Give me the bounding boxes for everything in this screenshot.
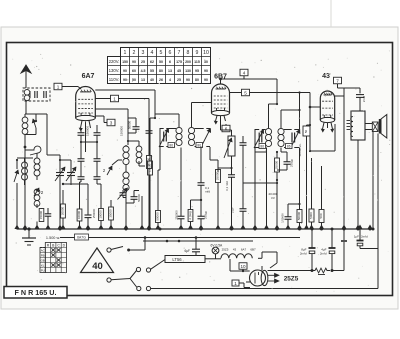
switch contact b — [107, 267, 141, 290]
svg-text:KL: KL — [41, 264, 45, 268]
tuning capacitor section 2 — [66, 165, 76, 185]
wire right verticals — [343, 96, 345, 229]
svg-text:20000: 20000 — [60, 206, 64, 215]
svg-text:110V.: 110V. — [109, 77, 120, 82]
coil data table — [40, 243, 67, 273]
input coil L1 — [17, 158, 33, 185]
2uF label — [231, 207, 235, 213]
heater chain — [221, 248, 277, 259]
capacitor 0.1 on detector line — [198, 183, 211, 216]
wire IFT1 sec lead — [200, 147, 202, 183]
capacitor stack mid a — [78, 141, 85, 170]
wire 142 — [141, 196, 143, 229]
capacitor on AVC line — [146, 131, 153, 134]
third line — [143, 236, 253, 242]
svg-text:1µF: 1µF — [354, 235, 359, 239]
tube 6A7 — [76, 87, 96, 121]
filter resistor — [311, 268, 334, 274]
node box T2 — [232, 280, 250, 288]
svg-text:10000: 10000 — [77, 210, 81, 219]
switch contact a — [107, 238, 145, 253]
svg-text:2 µF: 2 µF — [231, 207, 235, 213]
svg-text:175: 175 — [176, 60, 182, 64]
svg-text:10: 10 — [203, 50, 209, 56]
svg-text:1: 1 — [124, 50, 127, 56]
svg-text:6B7: 6B7 — [250, 248, 256, 252]
wire 43 anode to transformer — [335, 88, 360, 96]
antenna coil with switch — [22, 114, 37, 138]
antenna filter box — [23, 88, 50, 101]
svg-text:80: 80 — [195, 78, 199, 82]
electrolytic 4uF — [320, 229, 336, 271]
svg-text:250µµ: 250µµ — [204, 211, 208, 219]
svg-text:130: 130 — [185, 69, 191, 73]
speaker — [365, 115, 387, 139]
svg-text:250µµ: 250µµ — [290, 159, 294, 167]
svg-text:4: 4 — [151, 50, 154, 56]
tube 6A7 label — [82, 73, 95, 80]
resistor 5000 right — [309, 158, 314, 229]
capacitor 250000 near bus left — [175, 210, 185, 229]
ground symbol — [22, 227, 36, 245]
capacitor stack mid c — [78, 170, 85, 209]
svg-text:F N R 165 U.: F N R 165 U. — [15, 288, 57, 297]
svg-text:mfd: mfd — [205, 190, 210, 194]
svg-text:40: 40 — [150, 78, 154, 82]
padding capacitor — [45, 208, 52, 229]
chassis bus — [17, 228, 374, 230]
node box 7 — [334, 77, 342, 88]
wire IFT2 bottoms — [255, 148, 281, 230]
capacitor 6uF — [184, 238, 200, 256]
capacitor pair under 6A7 b — [94, 125, 101, 142]
wire IFT2 secondary top — [281, 109, 301, 129]
wire 25Z5 top — [229, 259, 231, 271]
capacitor pair under 6A7 a — [78, 128, 85, 142]
secondary line — [60, 237, 300, 239]
svg-text:1: 1 — [113, 96, 116, 101]
label 150000 b — [120, 126, 124, 136]
resistor 50000 43grid — [298, 124, 311, 229]
svg-text:50000: 50000 — [297, 211, 301, 220]
IF transformer 1 — [159, 120, 211, 216]
scan noise — [12, 48, 390, 292]
svg-text:90: 90 — [186, 78, 190, 82]
svg-text:43: 43 — [233, 248, 237, 252]
svg-text:5: 5 — [160, 50, 163, 56]
svg-text:150000: 150000 — [120, 126, 124, 136]
svg-text:60: 60 — [132, 69, 136, 73]
svg-text:PB: PB — [41, 254, 45, 258]
wire 43 grid bottom — [309, 125, 335, 152]
svg-text:9: 9 — [196, 50, 199, 56]
ground label — [46, 236, 60, 240]
wire 43 grid — [298, 91, 320, 108]
svg-text:2mfd: 2mfd — [362, 95, 366, 102]
resistor 2 meg — [188, 199, 202, 229]
svg-text:25000: 25000 — [274, 160, 278, 169]
osc coil upper — [123, 145, 129, 165]
dial lamp — [211, 243, 224, 258]
tube 25Z5 label — [284, 276, 299, 283]
resistor box 158 — [155, 211, 160, 230]
wire IFT1 secondary to 6B7 grid — [192, 103, 212, 121]
svg-text:13: 13 — [141, 78, 145, 82]
wire grid line to IFT1 resistor — [119, 99, 150, 156]
svg-text:50000: 50000 — [146, 157, 150, 166]
capacitor right a — [281, 203, 301, 229]
bus junctions — [15, 225, 375, 230]
wire IFT1 left down — [158, 147, 160, 210]
svg-text:150: 150 — [122, 60, 128, 64]
svg-text:250000: 250000 — [175, 210, 179, 220]
43 cathode wire — [328, 123, 336, 151]
svg-text:3: 3 — [110, 120, 113, 125]
svg-text:50000: 50000 — [137, 194, 141, 202]
capacitor 0.1 6B7 — [225, 168, 235, 229]
resistor 150000 osc anode — [139, 156, 153, 229]
osc anode coil — [127, 140, 142, 164]
osc grid capacitor — [128, 120, 140, 133]
svg-text:50000: 50000 — [155, 212, 159, 221]
capacitor 250uu near bus — [198, 211, 208, 229]
svg-text:AC: AC — [41, 249, 45, 253]
svg-text:86: 86 — [287, 145, 291, 149]
svg-text:40: 40 — [92, 261, 103, 272]
svg-text:1: 1 — [57, 84, 60, 89]
svg-text:500: 500 — [319, 213, 323, 218]
svg-text:220V.: 220V. — [109, 59, 120, 64]
svg-text:86: 86 — [169, 144, 173, 148]
svg-text:2 meg: 2 meg — [188, 211, 192, 220]
svg-text:6: 6 — [169, 60, 171, 64]
tube 6B7 — [212, 78, 230, 116]
svg-text:150000: 150000 — [86, 126, 90, 136]
svg-text:6A7G: 6A7G — [77, 236, 86, 240]
resistor 500 right — [319, 166, 324, 229]
wire det to volume — [243, 152, 278, 184]
svg-text:2mfd: 2mfd — [320, 252, 327, 256]
capacitor 2mfd 43 — [356, 95, 366, 111]
capacitor stack mid d — [94, 177, 102, 209]
svg-text:6A7: 6A7 — [241, 248, 247, 252]
svg-text:50: 50 — [159, 60, 163, 64]
svg-text:25Z5: 25Z5 — [284, 276, 299, 283]
band switch S1 — [14, 159, 19, 229]
resistor 50000 IFT1 — [146, 156, 151, 230]
svg-text:62: 62 — [150, 60, 154, 64]
node box T1 — [239, 263, 247, 272]
tube 6B7 label — [214, 74, 227, 81]
svg-text:7: 7 — [336, 78, 339, 83]
resistor 50000 osc — [128, 118, 132, 145]
svg-text:90: 90 — [132, 60, 136, 64]
resistor 150000 input — [39, 208, 44, 222]
svg-text:90: 90 — [204, 69, 208, 73]
wire gang top — [36, 114, 71, 165]
node box 3 — [95, 116, 115, 126]
resistor 10000 — [98, 209, 103, 230]
tube 43 label — [322, 73, 330, 80]
svg-text:200: 200 — [185, 60, 191, 64]
wire osc top — [95, 109, 136, 120]
svg-text:15000: 15000 — [39, 210, 43, 219]
capacitor below bus 344 — [341, 229, 347, 255]
wire IFT2 primary top — [269, 103, 279, 128]
svg-text:3: 3 — [142, 50, 145, 56]
svg-text:86: 86 — [260, 145, 264, 149]
svg-text:90: 90 — [123, 69, 127, 73]
wire transformer down — [358, 132, 378, 249]
svg-text:95: 95 — [195, 69, 199, 73]
rectifier 25Z5 — [230, 270, 279, 286]
voltage tap table — [108, 48, 211, 84]
svg-text:45: 45 — [177, 69, 181, 73]
svg-text:130V.: 130V. — [109, 68, 120, 73]
grid cap box 1 — [54, 83, 81, 90]
ballast resistor LT56 — [165, 256, 221, 263]
svg-text:4: 4 — [243, 70, 246, 75]
svg-text:6: 6 — [169, 50, 172, 56]
wire box4 to IFT2 — [244, 79, 277, 104]
6A7 heater leads — [79, 121, 90, 131]
svg-text:35000: 35000 — [108, 209, 112, 218]
wire power right vertical — [246, 249, 378, 289]
border frame — [7, 43, 393, 296]
alignment triangle 40 — [81, 248, 114, 273]
svg-text:250000: 250000 — [92, 208, 96, 218]
tuning capacitor section 1 — [55, 160, 65, 229]
svg-text:80: 80 — [159, 69, 163, 73]
svg-text:4.5: 4.5 — [141, 69, 146, 73]
node box 4 — [221, 69, 249, 79]
svg-text:5000: 5000 — [309, 212, 313, 219]
osc coil lower — [123, 165, 129, 230]
osc trimmer — [118, 188, 128, 200]
label 250000 cluster — [92, 208, 96, 218]
svg-text:10000: 10000 — [98, 210, 102, 219]
scan artifact line top — [330, 0, 332, 27]
resistor 250000 6B7 — [215, 163, 232, 229]
wire avc down — [276, 180, 278, 229]
svg-text:25000: 25000 — [215, 171, 219, 180]
resistor 10000 under caps — [77, 209, 82, 229]
output transformer — [347, 111, 366, 140]
svg-text:5: 5 — [244, 90, 247, 95]
IF transformer 2 — [254, 128, 300, 148]
capacitor 6B7 grid — [240, 136, 247, 152]
svg-text:1/10000: 1/10000 — [281, 213, 285, 223]
volume potentiometer — [221, 124, 236, 163]
6B7 cathode lead — [214, 116, 225, 124]
capacitor 6B7 bus a — [240, 152, 247, 229]
svg-text:1.500 w.: 1.500 w. — [46, 236, 60, 240]
svg-text:6: 6 — [225, 126, 228, 131]
title box FNR 165 U — [4, 287, 67, 299]
svg-text:0,1 mfd: 0,1 mfd — [225, 181, 229, 191]
wire antenna to coil — [25, 101, 27, 114]
svg-text:µµ: µµ — [271, 196, 275, 200]
6A7 cathode lead — [85, 121, 87, 142]
svg-text:10.000 uh.: 10.000 uh. — [298, 143, 302, 156]
svg-text:50: 50 — [304, 130, 308, 134]
resistor 350000 — [108, 200, 113, 229]
svg-text:25: 25 — [141, 60, 145, 64]
wire to band coils — [24, 138, 27, 229]
svg-text:8: 8 — [187, 50, 190, 56]
resistor 150000 under 6A7 — [86, 126, 90, 152]
diode load capacitor 250uu — [277, 152, 294, 170]
resistor 50000 right — [297, 148, 302, 229]
43 heater leads — [321, 123, 334, 132]
osc parallel cap — [126, 191, 141, 204]
svg-text:10: 10 — [240, 264, 246, 269]
svg-text:55: 55 — [150, 69, 154, 73]
node box 5 — [230, 89, 250, 96]
input coil L3 — [34, 189, 40, 208]
svg-text:2mfd: 2mfd — [300, 252, 307, 256]
svg-text:4: 4 — [169, 78, 171, 82]
svg-text:2: 2 — [133, 50, 136, 56]
coupling loop — [25, 146, 41, 155]
svg-text:1: 1 — [234, 281, 237, 286]
wire IFT1 sec bottom — [210, 147, 218, 172]
svg-text:115: 115 — [194, 60, 200, 64]
svg-text:26: 26 — [159, 78, 163, 82]
capacitor 88 near bus — [62, 183, 92, 229]
svg-text:6µF: 6µF — [184, 249, 190, 253]
svg-text:7: 7 — [178, 50, 181, 56]
diode load resistor 250000 — [274, 151, 279, 181]
secondary line label box — [75, 234, 89, 240]
electrolytic 8uF — [300, 229, 316, 271]
svg-text:90: 90 — [123, 78, 127, 82]
node box 6 — [222, 124, 230, 132]
svg-text:25: 25 — [177, 78, 181, 82]
svg-text:PU: PU — [41, 269, 45, 273]
svg-text:GB: GB — [41, 259, 45, 263]
svg-text:25Z5: 25Z5 — [222, 248, 229, 252]
AVC label — [268, 192, 278, 200]
switch contact 2 — [34, 188, 44, 196]
svg-text:90: 90 — [204, 78, 208, 82]
wire volume to bus — [231, 163, 233, 170]
wire band section to bus — [25, 185, 37, 229]
1uF capacitor right — [354, 229, 378, 249]
wire 6A7 column — [81, 141, 97, 143]
antenna — [21, 65, 31, 88]
wire 43 grid down — [309, 107, 311, 125]
node box 1 right — [95, 95, 118, 102]
wire box5 to IFT2 right — [250, 93, 300, 123]
svg-text:2mfd: 2mfd — [361, 235, 368, 239]
wire IFT1 primary to 6A7 anode — [95, 90, 179, 120]
tube 43 — [320, 91, 334, 123]
resistor 20000 — [60, 190, 65, 229]
input coil L2 — [34, 153, 40, 180]
svg-text:LT56: LT56 — [172, 257, 182, 262]
wire osc b+ — [150, 118, 155, 156]
capacitor stack mid b — [94, 141, 101, 177]
osc switch 2 — [103, 160, 122, 175]
svg-text:6A7: 6A7 — [82, 73, 95, 80]
switch contact c — [146, 260, 378, 291]
svg-text:13: 13 — [168, 69, 172, 73]
